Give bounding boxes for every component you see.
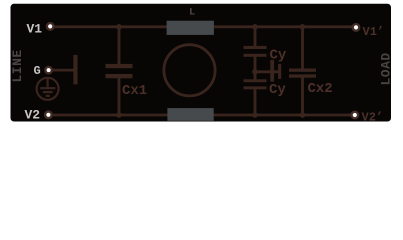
svg-text:Cx2: Cx2 — [308, 81, 333, 97]
svg-text:L: L — [189, 7, 195, 19]
capacitor Cy bottom plates — [244, 79, 267, 82]
svg-text:V2’: V2’ — [362, 111, 384, 125]
ground stem — [46, 79, 48, 87]
svg-text:V1: V1 — [27, 22, 43, 37]
node junction Cy top — [252, 24, 258, 30]
capacitor Cy top plates — [244, 46, 267, 49]
svg-text:V1’: V1’ — [363, 25, 385, 39]
svg-text:LOAD: LOAD — [379, 52, 394, 85]
capacitor Cy column segments — [254, 27, 257, 46]
terminal V2' — [352, 112, 359, 119]
capacitor Cx2 plates — [289, 69, 316, 72]
choke winding bottom — [167, 108, 213, 121]
capacitor Cx1 column bottom — [118, 78, 121, 115]
svg-text:G: G — [34, 64, 41, 78]
node junction Cx2 top — [300, 24, 306, 30]
node junction Cx2 bottom — [300, 112, 306, 118]
node junction Cy bottom — [252, 112, 258, 118]
svg-text:Cx1: Cx1 — [122, 83, 147, 99]
svg-text:V2: V2 — [25, 108, 41, 123]
wire G stub — [52, 69, 74, 72]
ground earth circle — [37, 78, 59, 100]
wire top choke to V1' — [212, 25, 353, 28]
svg-text:LINE: LINE — [10, 49, 25, 82]
node junction Cx1 bottom — [116, 112, 122, 118]
wire top V1 to choke — [55, 25, 169, 28]
wire bottom choke to V2' — [212, 114, 352, 117]
node midpoint junction — [252, 69, 258, 75]
ground bar 1 — [40, 87, 55, 89]
capacitor Cx2 column top — [301, 27, 304, 69]
chassis bar G — [73, 55, 77, 85]
wire midpoint stub — [255, 70, 280, 73]
choke winding top — [167, 21, 214, 35]
terminal V2 — [45, 112, 52, 119]
node junction Cx1 top — [116, 24, 122, 30]
chassis bar tall — [270, 60, 274, 82]
wire bottom V2 to choke — [53, 114, 169, 117]
svg-text:Cy: Cy — [269, 82, 286, 98]
terminal V1' — [353, 24, 360, 31]
capacitor Cx1 column top — [118, 27, 121, 64]
capacitor Cx1 plates — [106, 64, 133, 68]
ground bar 2 — [43, 91, 53, 93]
capacitor Cx2 column bottom — [301, 78, 304, 116]
chassis bar short — [278, 64, 281, 79]
terminal V1 — [47, 23, 54, 30]
dark panel — [11, 4, 392, 122]
ground bar 3 — [46, 95, 50, 97]
choke core circle L — [164, 45, 215, 96]
terminal G — [45, 67, 51, 73]
